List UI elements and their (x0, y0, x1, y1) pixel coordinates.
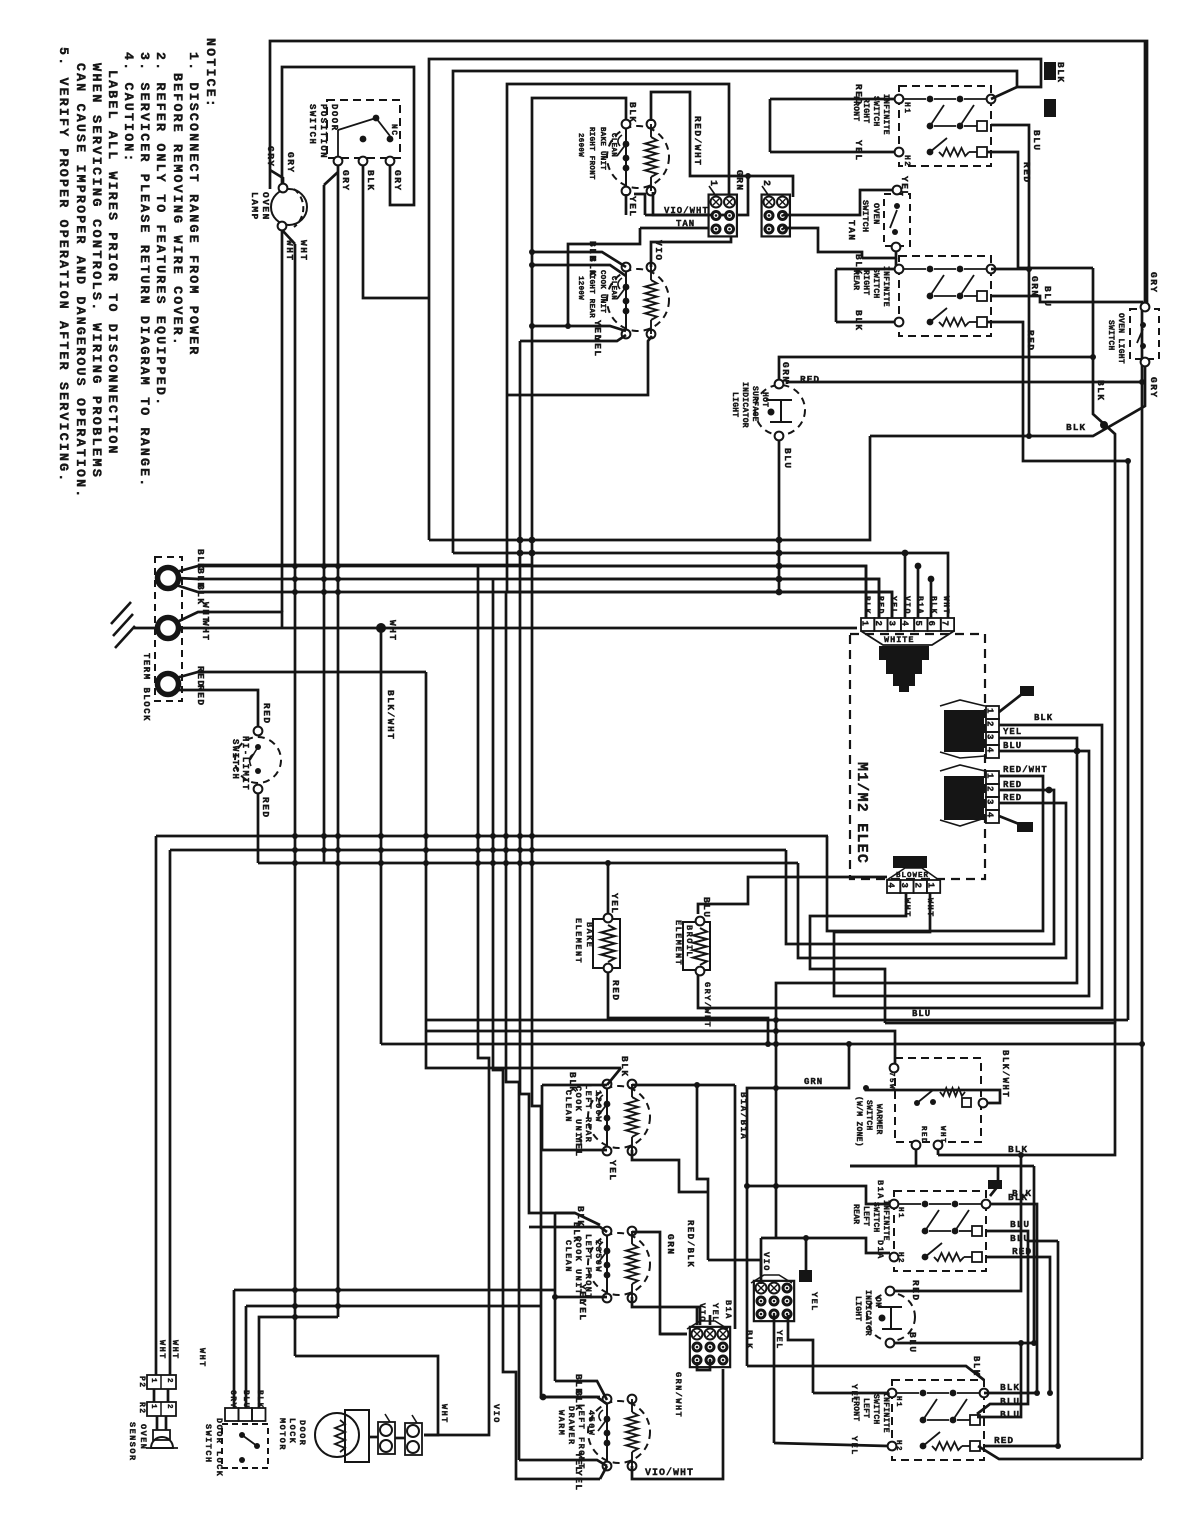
wire lamp down WHT 2 (283, 231, 295, 244)
svg-text:RIGHT FRONT: RIGHT FRONT (587, 127, 595, 180)
wire element inner box (532, 98, 626, 566)
wires L1 feeds (176, 566, 866, 618)
svg-text:INDICATOR: INDICATOR (740, 382, 749, 428)
door lock switch (222, 1424, 268, 1468)
svg-text:2350W: 2350W (593, 1240, 603, 1273)
wire to warmer 2 (381, 1043, 1142, 1046)
svg-text:VIO: VIO (902, 596, 911, 615)
svg-text:LEFT REAR: LEFT REAR (583, 1084, 593, 1143)
wire drop 2 (493, 579, 600, 1479)
infinite switch right front (899, 86, 991, 166)
junction WHT (376, 623, 386, 633)
svg-text:BLK: BLK (571, 1222, 582, 1244)
wires connector A (696, 1307, 699, 1325)
wire element outer box (507, 84, 729, 592)
wire BLU long (426, 1019, 1128, 1022)
hot surface indicator light (755, 385, 805, 435)
M1/M2 ELEC control box (850, 634, 985, 879)
bus junction dots (776, 537, 783, 544)
svg-text:B1A/B1A: B1A/B1A (738, 1092, 748, 1140)
svg-text:2600W: 2600W (576, 133, 584, 157)
svg-text:YEL: YEL (573, 1470, 584, 1492)
svg-text:3: 3 (985, 799, 995, 804)
svg-text:SWITCH: SWITCH (1106, 320, 1115, 351)
wire RED fan 2 (798, 803, 1066, 958)
svg-text:M1/M2 ELEC: M1/M2 ELEC (853, 762, 870, 864)
wire second top run (429, 59, 1041, 540)
svg-text:YEL: YEL (592, 336, 603, 358)
svg-text:DOOR LOCK: DOOR LOCK (214, 1418, 224, 1477)
svg-text:GRY: GRY (392, 170, 403, 192)
hi-limit switch (235, 737, 281, 783)
wire BLK/WHT neutral drop (380, 628, 383, 1044)
svg-text:VIO: VIO (697, 1303, 707, 1323)
svg-text:YEL: YEL (607, 1160, 618, 1182)
svg-text:OVEN: OVEN (260, 192, 271, 221)
svg-text:WHT: WHT (170, 1340, 180, 1360)
svg-text:WHITE: WHITE (884, 635, 915, 645)
svg-text:LEFT: LEFT (861, 1206, 870, 1226)
svg-text:YEL: YEL (774, 1330, 784, 1350)
wire BLU fan 2 to blower (834, 751, 1089, 996)
svg-text:VIO: VIO (761, 1252, 771, 1272)
svg-text:BLK: BLK (744, 1330, 754, 1350)
fan left rear switch (990, 1204, 1037, 1393)
svg-text:GRY: GRY (285, 152, 296, 174)
svg-text:RED: RED (610, 980, 621, 1002)
svg-text:B1A: B1A (723, 1300, 733, 1320)
svg-text:H2: H2 (896, 1252, 904, 1264)
svg-text:RED: RED (875, 596, 884, 615)
wire RED L2 drop (426, 672, 621, 1068)
svg-text:4. CAUTION:: 4. CAUTION: (121, 52, 136, 164)
svg-text:YEL: YEL (577, 1300, 588, 1322)
wires left rear unit (607, 1068, 621, 1085)
svg-text:CLEAN: CLEAN (563, 1240, 573, 1273)
svg-text:SWITCH: SWITCH (203, 1424, 213, 1464)
svg-text:OVEN: OVEN (871, 203, 881, 225)
wire drop 4 (520, 579, 600, 1225)
svg-text:SWITCH: SWITCH (871, 1394, 880, 1425)
wires from connectors (645, 214, 709, 217)
blower connector (887, 880, 900, 893)
svg-text:2: 2 (165, 1404, 173, 1410)
wire YEL fan to broil (698, 725, 1102, 1008)
svg-text:BLU: BLU (1003, 741, 1022, 751)
warmer switch (895, 1058, 981, 1142)
element right front unit (607, 126, 669, 188)
svg-text:1: 1 (985, 773, 995, 779)
svg-text:LABEL ALL WIRES PRIOR TO DISCO: LABEL ALL WIRES PRIOR TO DISCONNECTION (105, 70, 120, 456)
svg-text:2. REFER ONLY TO FEATURES EQUI: 2. REFER ONLY TO FEATURES EQUIPPED. (153, 52, 168, 407)
svg-text:RED: RED (1021, 162, 1032, 184)
svg-text:D1A: D1A (875, 1240, 885, 1260)
h bus 850 (170, 849, 786, 852)
svg-text:BLK: BLK (567, 1072, 578, 1094)
svg-text:CAN CAUSE IMPROPER AND DANGERO: CAN CAUSE IMPROPER AND DANGEROUS OPERATI… (73, 63, 88, 499)
svg-text:SENSOR: SENSOR (127, 1422, 137, 1462)
clock blob (879, 646, 929, 660)
wire bus 1366 (747, 1366, 984, 1380)
svg-text:BLK: BLK (619, 1056, 630, 1078)
svg-text:H1: H1 (894, 1396, 902, 1408)
wires oven light switch (1144, 41, 1147, 303)
svg-text:RED: RED (1003, 793, 1022, 803)
svg-text:YEL: YEL (1003, 727, 1022, 737)
svg-text:2: 2 (873, 621, 883, 626)
wire top outer run (270, 41, 1147, 307)
svg-text:BLK: BLK (929, 596, 938, 615)
connector plug 1 (709, 195, 737, 237)
wire third top run (453, 71, 1017, 553)
svg-text:SWITCH: SWITCH (864, 1100, 873, 1131)
svg-text:VIO: VIO (491, 1404, 501, 1424)
svg-text:REAR: REAR (851, 1204, 860, 1224)
wire bottom loop (234, 1289, 555, 1292)
svg-text:OVEN LIGHT: OVEN LIGHT (1116, 313, 1125, 364)
svg-text:75W: 75W (887, 1072, 895, 1090)
door position switch (327, 100, 400, 158)
ground symbol (134, 627, 156, 630)
svg-text:450W: 450W (586, 1410, 596, 1436)
svg-text:H1: H1 (896, 1207, 904, 1219)
right side fan front switch (991, 87, 1017, 99)
svg-text:INFINITE: INFINITE (881, 1392, 890, 1433)
wires door lock motor (295, 1356, 438, 1435)
svg-text:YEL: YEL (710, 1303, 720, 1323)
svg-text:BLK: BLK (1008, 1144, 1028, 1155)
svg-text:WHT: WHT (941, 596, 950, 615)
oven lamp (271, 189, 307, 225)
svg-text:1: 1 (926, 883, 936, 889)
svg-text:2: 2 (985, 721, 995, 726)
svg-text:INFINITE: INFINITE (881, 1200, 890, 1241)
svg-text:COOK UNIT: COOK UNIT (598, 270, 606, 313)
svg-text:4: 4 (886, 883, 896, 889)
svg-text:1: 1 (149, 1404, 157, 1410)
wire b1a vertical (734, 1085, 737, 1329)
wire lamp down WHT (281, 230, 284, 612)
wires warmer switch (885, 1023, 1115, 1155)
wire loop bake broil (607, 863, 610, 914)
svg-text:3: 3 (886, 621, 896, 626)
svg-text:RED/WHT: RED/WHT (1003, 765, 1048, 775)
broil element (683, 922, 710, 970)
wires right front switch (770, 98, 895, 101)
connector grid B (754, 1281, 794, 1321)
svg-text:NC: NC (389, 124, 398, 137)
svg-text:3: 3 (899, 883, 909, 888)
svg-text:WHEN SERVICING CONTROLS. WIRI: WHEN SERVICING CONTROLS. WIRING PROBLEMS (89, 63, 104, 479)
svg-text:4: 4 (985, 747, 995, 753)
bake element (593, 919, 620, 968)
svg-text:RED: RED (1003, 780, 1022, 790)
wire neutral WHT (177, 612, 282, 628)
svg-text:2: 2 (985, 786, 995, 791)
svg-text:5: 5 (913, 621, 923, 626)
svg-text:SWITCH: SWITCH (307, 104, 317, 145)
svg-text:BROIL: BROIL (684, 925, 694, 958)
svg-text:GRN: GRN (804, 1077, 823, 1087)
wires door lock (233, 1290, 236, 1408)
svg-text:1: 1 (149, 1378, 157, 1384)
svg-text:BLK: BLK (627, 102, 638, 124)
wire drop 5 (532, 566, 600, 1397)
strip feed arcs (904, 553, 907, 618)
fan left front switch (984, 1392, 1037, 1395)
svg-text:BLK: BLK (1055, 62, 1066, 84)
svg-text:BLK/WHT: BLK/WHT (1000, 1050, 1010, 1098)
svg-text:SURFACE: SURFACE (750, 386, 759, 422)
svg-text:BEFORE REMOVING WIRE COVER.: BEFORE REMOVING WIRE COVER. (170, 73, 185, 347)
door lock motor (315, 1413, 359, 1457)
svg-text:INDICATOR: INDICATOR (863, 1290, 872, 1336)
svg-text:(W/M ZONE): (W/M ZONE) (854, 1096, 863, 1147)
svg-text:LIGHT: LIGHT (730, 392, 739, 418)
bus line 2 (453, 553, 948, 618)
svg-text:BLK: BLK (1000, 1382, 1020, 1393)
oven sensor (151, 1437, 173, 1448)
terminal L1 (158, 568, 179, 589)
connector R2 (147, 1402, 176, 1416)
svg-text:SWITCH: SWITCH (871, 1202, 880, 1233)
svg-text:CLEAN: CLEAN (563, 1090, 573, 1123)
svg-text:ELEMENT: ELEMENT (673, 920, 683, 966)
svg-text:HI-LIMIT: HI-LIMIT (240, 736, 250, 791)
svg-text:WHT: WHT (439, 1404, 449, 1424)
wires on light (894, 1155, 1021, 1291)
wire RED fan (786, 790, 1054, 944)
wire BLU fan (776, 738, 1077, 1238)
junction dots on buses (292, 833, 298, 839)
wire chassis arrow (990, 1166, 998, 1196)
bus line 3 (532, 566, 866, 618)
svg-text:MOTOR: MOTOR (277, 1418, 287, 1451)
svg-text:WHT: WHT (157, 1340, 167, 1360)
svg-text:BLK: BLK (573, 1390, 584, 1412)
wires L2 feeds (176, 672, 426, 678)
svg-text:BLK: BLK (365, 170, 376, 192)
svg-text:ON: ON (873, 1297, 882, 1307)
svg-text:RED: RED (919, 1126, 927, 1144)
wire RED/WHT fan (827, 776, 1043, 931)
svg-text:GRY: GRY (1148, 272, 1159, 294)
wires oven switch (862, 251, 896, 258)
svg-text:CLEAN: CLEAN (609, 276, 617, 300)
svg-text:LIGHT: LIGHT (853, 1296, 862, 1322)
svg-text:BLU: BLU (1042, 286, 1053, 308)
svg-text:ELEMENT: ELEMENT (573, 918, 583, 964)
svg-text:POSITION: POSITION (318, 104, 328, 159)
h bus 863 (258, 862, 798, 865)
wires left front unit upper (555, 1212, 575, 1215)
svg-text:WHT: WHT (200, 620, 211, 642)
wire red/blk (707, 1192, 710, 1260)
svg-text:BLK: BLK (1008, 1192, 1028, 1203)
svg-text:P2: P2 (137, 1376, 146, 1389)
svg-text:HOT: HOT (760, 392, 769, 407)
wires sensor (153, 1389, 156, 1402)
svg-text:BLU: BLU (1031, 130, 1042, 152)
svg-text:NOTICE:: NOTICE: (203, 38, 218, 109)
element right rear unit (607, 269, 669, 331)
right side fan rear switch (991, 268, 1029, 271)
svg-text:7: 7 (939, 621, 949, 626)
svg-text:BLU: BLU (782, 448, 793, 470)
connector plug 2 (762, 195, 790, 237)
svg-text:BLU: BLU (912, 1009, 931, 1019)
svg-text:BLK: BLK (1034, 713, 1053, 723)
svg-text:BAKE: BAKE (584, 922, 594, 948)
wires element1 (651, 92, 793, 197)
svg-text:1. DISCONNECT RANGE FROM POWER: 1. DISCONNECT RANGE FROM POWER (186, 52, 201, 357)
svg-text:YEL: YEL (809, 1292, 819, 1312)
wires left front switch (813, 1392, 888, 1395)
on indicator light (867, 1293, 915, 1341)
svg-text:BLK: BLK (862, 596, 871, 615)
svg-text:WARMER: WARMER (874, 1104, 883, 1135)
fan wires connector P1-1 (999, 694, 1022, 712)
svg-text:GRY: GRY (228, 1390, 237, 1409)
svg-text:YEL: YEL (573, 1136, 584, 1158)
svg-text:B1A: B1A (915, 596, 924, 615)
svg-text:YEL: YEL (889, 596, 898, 615)
svg-text:GRY: GRY (340, 170, 351, 192)
svg-text:GRN: GRN (665, 1234, 676, 1256)
svg-text:4: 4 (900, 621, 910, 627)
svg-text:RED: RED (260, 797, 271, 819)
svg-text:R2: R2 (137, 1402, 146, 1415)
svg-text:GRY: GRY (1148, 377, 1159, 399)
infinite switch left rear (894, 1191, 986, 1271)
terminal L2 (158, 674, 179, 695)
svg-text:4: 4 (985, 812, 995, 818)
motor connectors (380, 1424, 392, 1436)
svg-text:SWITCH: SWITCH (230, 739, 240, 780)
wire box around lamp circuit (282, 67, 414, 205)
svg-text:1: 1 (860, 621, 870, 627)
svg-text:3: 3 (985, 734, 995, 739)
wire to warmer 1 (426, 1031, 895, 1068)
svg-text:WHT: WHT (298, 240, 309, 262)
svg-text:GRN: GRN (1029, 276, 1040, 298)
svg-text:GRN: GRN (734, 170, 745, 192)
svg-text:YEL: YEL (899, 176, 910, 198)
svg-text:1: 1 (985, 708, 995, 714)
infinite switch left front (892, 1380, 984, 1460)
svg-text:BAKE UNIT: BAKE UNIT (598, 127, 606, 170)
warming drawer unit lower (588, 1401, 650, 1463)
h bus 836 (156, 835, 828, 838)
svg-text:LAMP: LAMP (249, 192, 260, 221)
infinite switch right rear (899, 256, 991, 336)
svg-text:LOCK: LOCK (287, 1418, 297, 1444)
svg-text:CLEAN: CLEAN (609, 133, 617, 157)
svg-text:B1A: B1A (875, 1180, 885, 1200)
svg-text:RED/BLK: RED/BLK (685, 1220, 695, 1268)
bus line 5 (507, 592, 892, 618)
svg-text:DOOR: DOOR (329, 104, 339, 132)
svg-text:DRAWER: DRAWER (566, 1406, 576, 1446)
connector P1-2 (986, 771, 999, 784)
svg-text:WARM: WARM (556, 1410, 566, 1436)
svg-text:BLK: BLK (1066, 422, 1086, 433)
wire hi-limit down (257, 793, 260, 863)
svg-text:RED: RED (1025, 330, 1036, 352)
svg-text:BLK: BLK (971, 1356, 981, 1377)
svg-text:BLK/WHT: BLK/WHT (385, 690, 396, 740)
svg-text:SWITCH: SWITCH (871, 96, 880, 127)
wire crossing X (1093, 268, 1115, 1023)
left corners of buses (155, 836, 158, 1375)
svg-text:OVEN: OVEN (138, 1424, 148, 1450)
wire lamp to outer (270, 170, 283, 184)
oven light switch (1130, 309, 1159, 359)
svg-text:DOOR: DOOR (297, 1420, 307, 1446)
wires right rear switch (836, 268, 895, 271)
svg-text:LEFT: LEFT (861, 1398, 870, 1418)
svg-text:6: 6 (926, 621, 936, 626)
terminal N (158, 618, 179, 639)
svg-text:2: 2 (165, 1378, 173, 1384)
svg-text:RED: RED (853, 84, 864, 106)
connector P1-1 (986, 706, 999, 719)
svg-text:WHT: WHT (197, 1348, 207, 1368)
connector grid A (690, 1327, 730, 1367)
terminal block (155, 557, 182, 701)
wire door switch terminals (323, 185, 326, 863)
left front surface unit upper (588, 1233, 650, 1295)
svg-text:BLU: BLU (1000, 1409, 1020, 1420)
svg-text:BLK: BLK (587, 256, 598, 278)
svg-text:WHT: WHT (938, 1126, 946, 1144)
svg-text:RED: RED (261, 703, 272, 725)
svg-text:H2: H2 (902, 155, 911, 168)
svg-text:YEL: YEL (609, 893, 620, 915)
svg-text:2: 2 (912, 883, 922, 888)
svg-text:SWITCH: SWITCH (871, 268, 880, 299)
svg-text:BLK: BLK (853, 254, 864, 276)
svg-text:1200W: 1200W (593, 1090, 603, 1123)
bus line 1 (429, 436, 870, 540)
svg-text:TAN: TAN (846, 220, 857, 242)
svg-text:VIO/WHT: VIO/WHT (645, 1467, 694, 1479)
svg-text:RED: RED (994, 1435, 1014, 1446)
svg-text:GRN/WHT: GRN/WHT (673, 1372, 683, 1418)
svg-text:WHT: WHT (387, 620, 398, 642)
svg-text:BLOWER: BLOWER (896, 872, 929, 880)
svg-text:1200W: 1200W (576, 276, 584, 300)
left rear surface unit (588, 1086, 650, 1148)
wire drop 3 (506, 592, 519, 1460)
svg-text:H1: H1 (902, 102, 911, 115)
wire D1A (761, 1238, 890, 1253)
svg-text:GRN: GRN (780, 362, 791, 384)
svg-text:5. VERIFY PROPER OPERATION AFT: 5. VERIFY PROPER OPERATION AFTER SERVICI… (56, 47, 71, 483)
svg-text:YEL: YEL (627, 196, 638, 218)
wires connector B (773, 1315, 776, 1443)
wire vio drop (519, 341, 522, 579)
connector P2 (147, 1375, 176, 1389)
wire drop vio (424, 566, 489, 1435)
svg-text:TERM BLOCK: TERM BLOCK (141, 653, 151, 722)
wires left rear switch (747, 1186, 890, 1204)
bus line 4 (520, 579, 879, 618)
WHITE connector strip (861, 618, 874, 631)
wires hot surface light (779, 357, 1093, 380)
svg-text:GRY: GRY (265, 146, 276, 168)
oven switch (884, 194, 910, 246)
